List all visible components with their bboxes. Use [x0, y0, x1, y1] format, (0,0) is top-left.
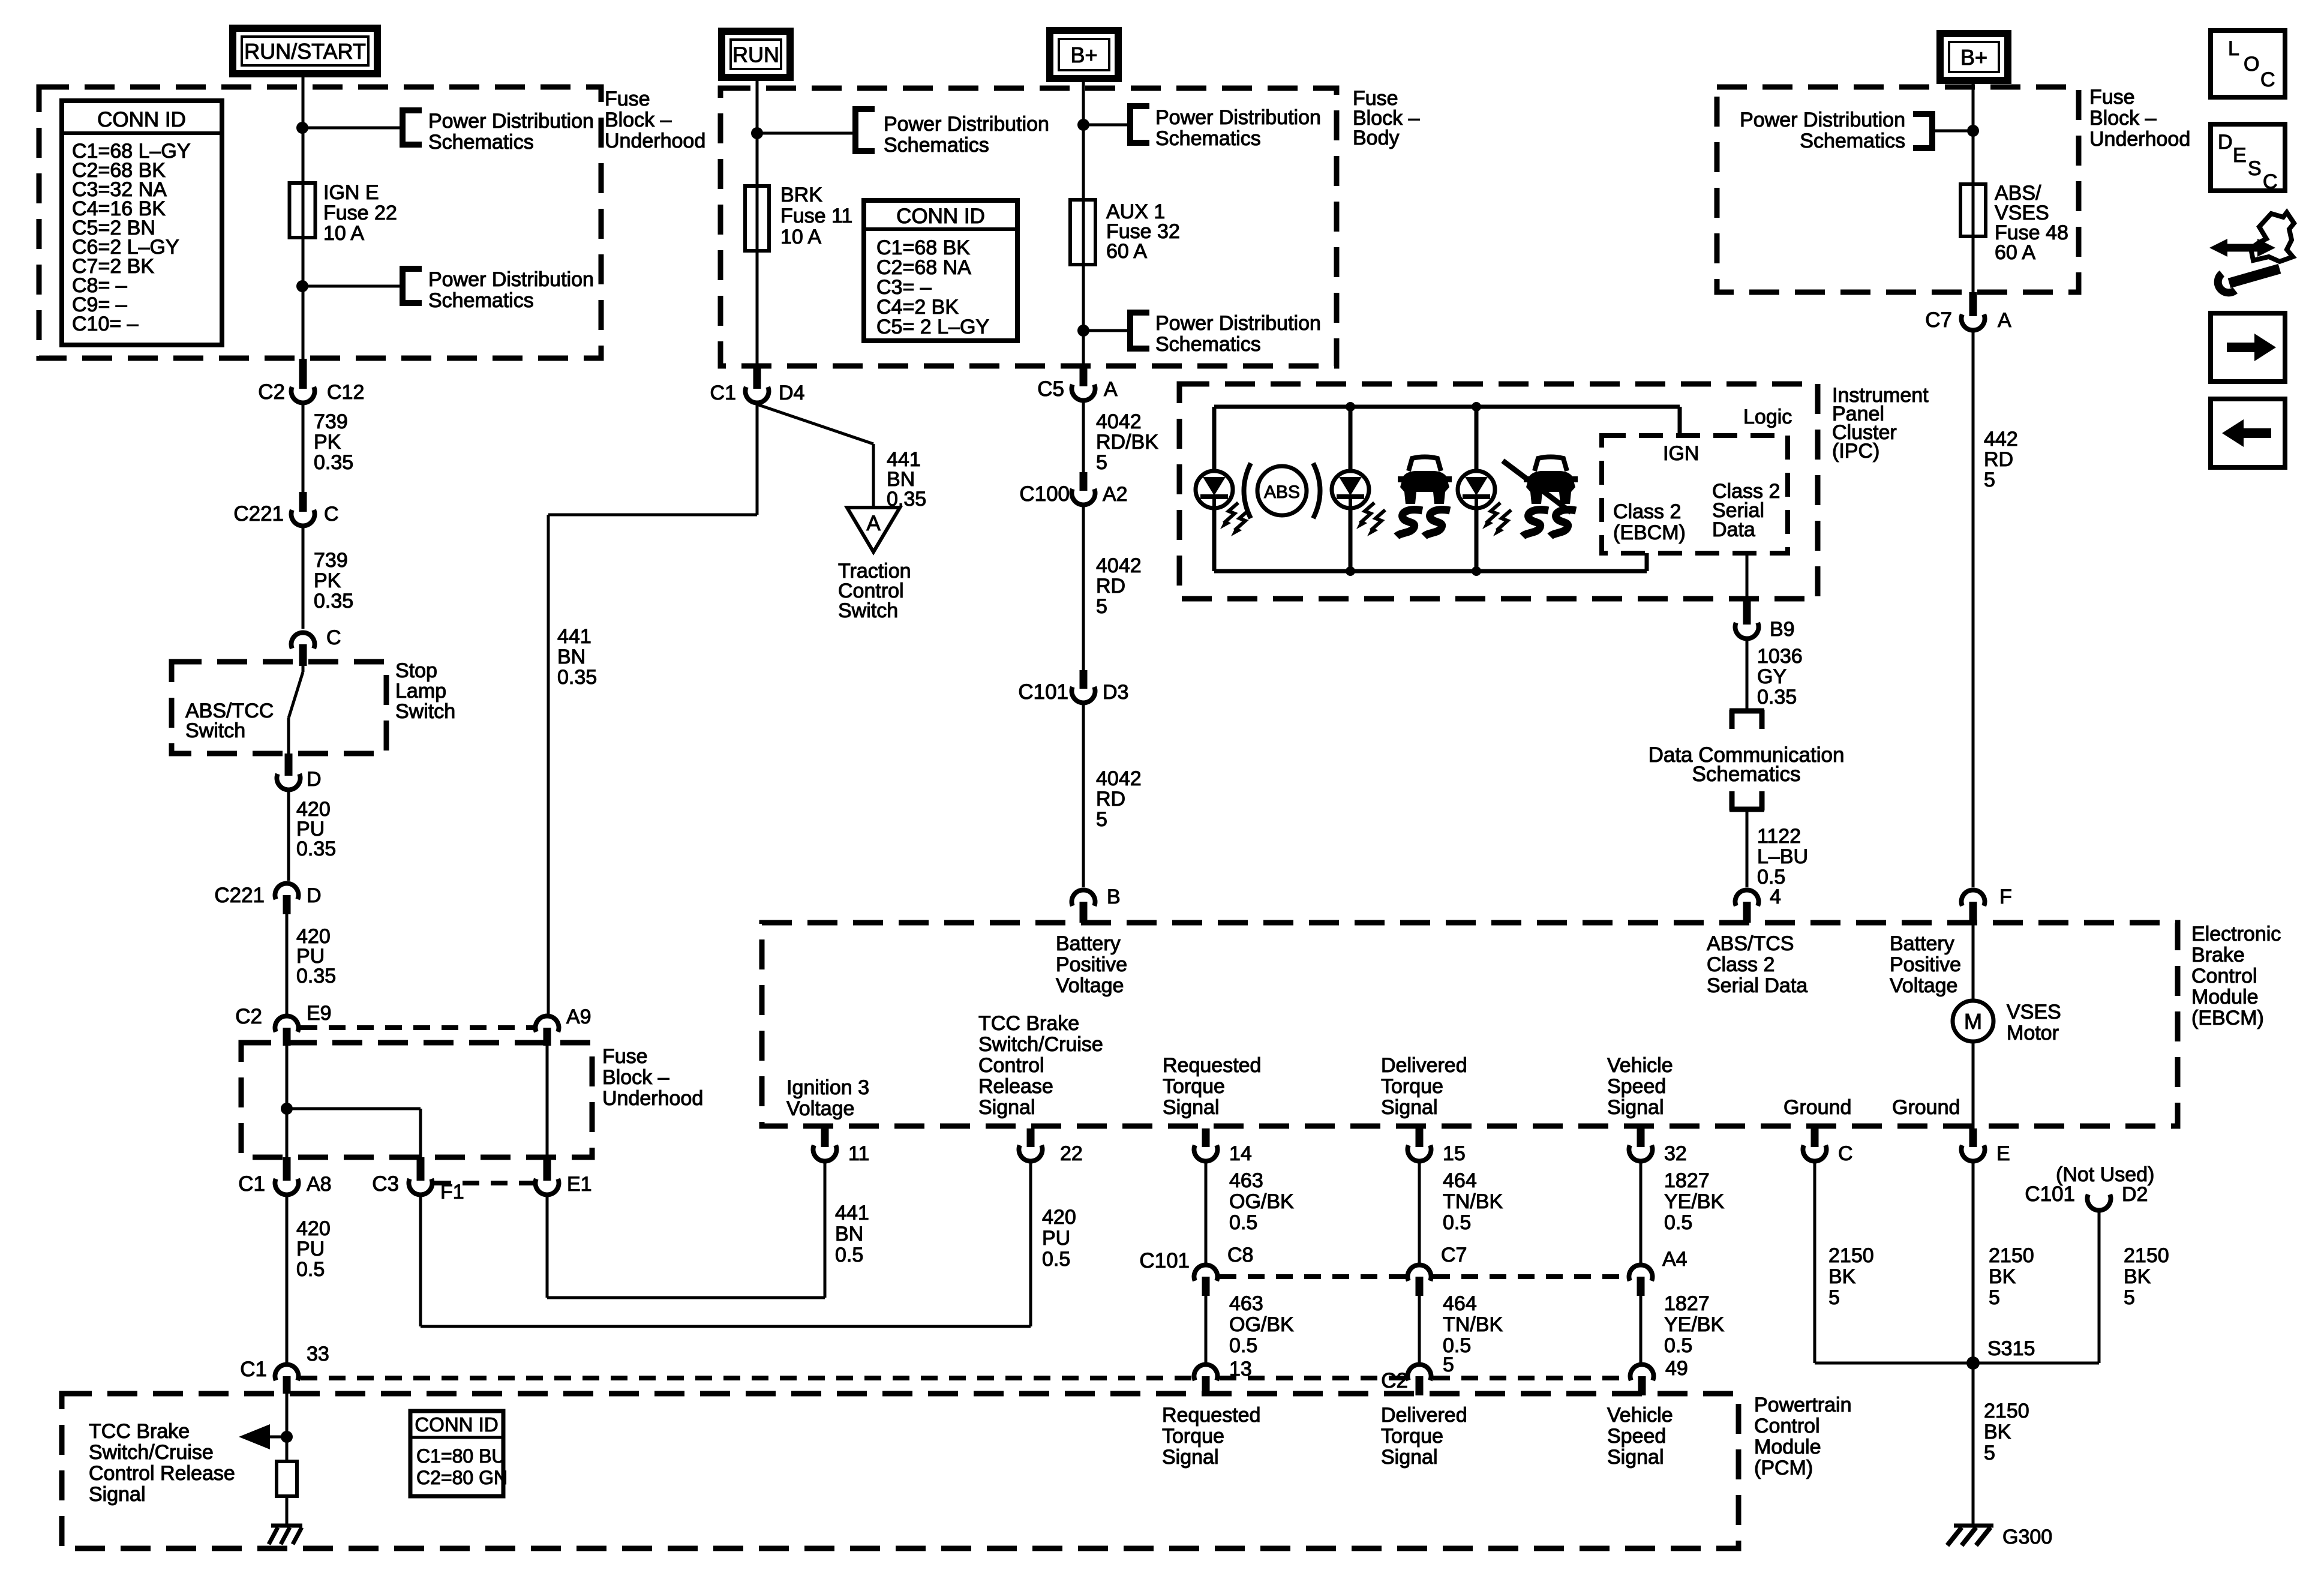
wire 464 TN/BK lower	[1418, 1296, 1421, 1363]
wire to VSES motor	[1972, 923, 1975, 1002]
svg-text:Torque: Torque	[1381, 1425, 1443, 1448]
svg-text:PU: PU	[1042, 1227, 1070, 1250]
wire through fuse block (420 PU)	[286, 1046, 289, 1157]
svg-text:C2=80 GN: C2=80 GN	[416, 1467, 508, 1488]
svg-text:0.5: 0.5	[296, 1258, 325, 1281]
svg-text:4042: 4042	[1096, 767, 1142, 790]
svg-text:739: 739	[314, 549, 348, 572]
svg-text:RUN/START: RUN/START	[244, 39, 366, 64]
wire 463 OG/BK upper	[1205, 1163, 1208, 1263]
svg-text:C100: C100	[1019, 482, 1070, 506]
label wire 420 PU 0.5 (pin22)	[1042, 1206, 1076, 1271]
svg-text:0.35: 0.35	[296, 965, 336, 987]
svg-text:Signal: Signal	[1607, 1446, 1664, 1469]
dashed connector jumper F1-E1	[434, 1181, 533, 1185]
dashed connector jumper C7-A4	[1433, 1274, 1627, 1279]
connector C2/C12	[258, 359, 364, 404]
svg-text:GY: GY	[1757, 665, 1786, 688]
svg-text:Requested: Requested	[1163, 1054, 1261, 1077]
svg-text:(IPC): (IPC)	[1832, 440, 1879, 463]
connector C1/D4	[710, 366, 805, 404]
off-page triangle A traction control switch	[847, 508, 900, 552]
Fuse Block - Underhood label (lower)	[602, 1045, 703, 1110]
node junction B+ to power distribution 2	[1077, 325, 1089, 337]
svg-text:22: 22	[1060, 1142, 1083, 1165]
EBCM pin 11	[813, 1128, 870, 1165]
svg-text:Stop: Stop	[395, 659, 437, 682]
EBCM pin E ground	[1962, 1128, 2010, 1165]
svg-text:PU: PU	[296, 1238, 325, 1260]
svg-text:S315: S315	[1987, 1337, 2035, 1360]
wire S315 to G300	[1972, 1363, 1975, 1526]
ABS warning symbol	[1244, 463, 1320, 518]
svg-text:A9: A9	[566, 1005, 591, 1028]
svg-text:Module: Module	[2191, 986, 2259, 1008]
svg-text:Schematics: Schematics	[428, 131, 534, 154]
label battery positive voltage (B)	[1056, 932, 1127, 997]
svg-text:PK: PK	[314, 569, 341, 592]
svg-text:D4: D4	[779, 382, 804, 404]
label vehicle speed signal	[1607, 1054, 1673, 1119]
svg-text:5: 5	[1096, 595, 1107, 618]
svg-text:Schematics: Schematics	[1155, 127, 1261, 150]
label wire 464 TN/BK 0.5 (1)	[1443, 1169, 1503, 1234]
svg-text:C1: C1	[240, 1358, 267, 1381]
IPC lamp bus left	[1212, 407, 1217, 571]
svg-text:Switch/Cruise: Switch/Cruise	[978, 1033, 1103, 1056]
svg-text:BK: BK	[1828, 1265, 1856, 1288]
svg-text:Signal: Signal	[1381, 1446, 1438, 1469]
svg-text:5: 5	[2124, 1286, 2135, 1309]
svg-text:1827: 1827	[1664, 1169, 1710, 1192]
wire 4042 RD (2)	[1082, 704, 1085, 887]
svg-text:420: 420	[296, 1217, 331, 1240]
dashed connector jumper C8-C7	[1220, 1274, 1406, 1279]
svg-text:Requested: Requested	[1162, 1404, 1260, 1427]
label TCC brake switch signal	[978, 1012, 1103, 1119]
icon arrow right	[2211, 313, 2285, 382]
stop lamp switch box	[172, 662, 386, 754]
svg-text:RD: RD	[1096, 575, 1125, 598]
svg-text:0.5: 0.5	[1443, 1211, 1471, 1234]
svg-text:Control: Control	[1754, 1415, 1820, 1437]
wire 441 BN to pin 11	[547, 1163, 825, 1298]
label wire 739 PK 0.35 (1)	[314, 410, 353, 474]
power rail RUN/START	[233, 28, 377, 74]
svg-text:F: F	[1999, 885, 2012, 908]
label wire 2150 BK 5 (G300)	[1984, 1400, 2029, 1464]
off-page bracket from data comm (bottom)	[1730, 791, 1764, 810]
svg-text:Fuse 11: Fuse 11	[780, 205, 852, 227]
svg-text:4042: 4042	[1096, 410, 1142, 433]
svg-text:Power Distribution: Power Distribution	[1740, 109, 1905, 131]
svg-text:2150: 2150	[1989, 1244, 2034, 1267]
off-page bracket RUN power distribution	[853, 106, 875, 154]
svg-text:E9: E9	[307, 1002, 332, 1025]
wire 420 PU to pin 22	[421, 1163, 1031, 1326]
label power distribution schematics (RUN)	[884, 113, 1049, 157]
svg-text:Fuse: Fuse	[605, 88, 650, 110]
node junction to power distribution 1	[296, 122, 308, 134]
svg-text:RD: RD	[1984, 448, 2013, 471]
svg-text:E: E	[1996, 1142, 2010, 1165]
Fuse Block - Underhood label (left)	[605, 88, 705, 152]
svg-text:RD: RD	[1096, 788, 1125, 810]
svg-text:0.35: 0.35	[557, 666, 597, 689]
connector C7 (bulkhead)	[1408, 1244, 1467, 1296]
svg-text:Battery: Battery	[1056, 932, 1121, 955]
svg-text:0.5: 0.5	[1229, 1334, 1257, 1357]
svg-text:5: 5	[1828, 1286, 1840, 1309]
svg-text:O: O	[2244, 53, 2259, 76]
svg-text:Schematics: Schematics	[428, 289, 534, 312]
lamp 3 flash arrows	[1482, 503, 1511, 536]
off-page bracket power distribution 1	[400, 107, 422, 148]
svg-text:Voltage: Voltage	[1056, 974, 1124, 997]
svg-text:1036: 1036	[1757, 645, 1803, 668]
wire 420 PU segment 1	[287, 791, 290, 881]
Fuse Block - Body label	[1353, 87, 1420, 149]
label wire 420 PU 0.35 (1)	[296, 798, 336, 860]
svg-text:15: 15	[1443, 1142, 1466, 1165]
EBCM pin 32	[1629, 1128, 1687, 1165]
fuse F22 IGN E	[290, 183, 316, 238]
EBCM pin 15	[1408, 1128, 1466, 1165]
connector D below stop lamp switch	[277, 754, 322, 791]
label fuse BRK	[780, 184, 852, 248]
wire 442 RD	[1972, 332, 1975, 887]
svg-text:A2: A2	[1103, 483, 1128, 506]
label power distribution schematics (right)	[1740, 109, 1905, 152]
svg-text:C101: C101	[1139, 1249, 1190, 1272]
svg-text:L–BU: L–BU	[1757, 845, 1808, 868]
svg-text:CONN ID: CONN ID	[896, 205, 985, 228]
fuse F32 AUX 1	[1070, 200, 1095, 265]
svg-text:C12: C12	[327, 381, 364, 404]
svg-text:0.5: 0.5	[1664, 1334, 1692, 1357]
svg-text:A: A	[1998, 309, 2011, 332]
svg-text:TCC Brake: TCC Brake	[89, 1420, 190, 1443]
svg-text:Block –: Block –	[605, 109, 672, 131]
svg-text:Signal: Signal	[89, 1483, 146, 1506]
wire 441 BN routing	[548, 403, 757, 1014]
svg-text:PK: PK	[314, 431, 341, 454]
label wire 739 PK 0.35 (2)	[314, 549, 353, 613]
svg-text:A: A	[866, 512, 881, 535]
CONN ID table (PCM)	[410, 1411, 508, 1496]
svg-text:Power Distribution: Power Distribution	[1155, 106, 1321, 129]
svg-text:Switch/Cruise: Switch/Cruise	[89, 1441, 214, 1464]
svg-text:5: 5	[1096, 451, 1107, 474]
PCM pin 5 connector C2	[1381, 1353, 1454, 1395]
indicator lamp LED 2 (traction active)	[1332, 471, 1369, 508]
svg-text:TN/BK: TN/BK	[1443, 1313, 1503, 1336]
svg-text:Logic: Logic	[1743, 406, 1792, 428]
EBCM pin F	[1962, 885, 2012, 923]
svg-text:14: 14	[1229, 1142, 1252, 1165]
svg-text:D: D	[307, 884, 322, 907]
svg-text:Power Distribution: Power Distribution	[428, 268, 594, 291]
svg-text:441: 441	[557, 625, 591, 648]
off-page bracket B+ pd 1	[1128, 103, 1149, 146]
svg-text:4042: 4042	[1096, 554, 1142, 577]
power rail RUN	[722, 31, 790, 77]
label class 2 serial data	[1712, 480, 1780, 541]
svg-text:C221: C221	[233, 502, 284, 526]
icon arrow left	[2211, 399, 2285, 467]
connector C100/A2	[1019, 472, 1127, 506]
svg-text:0.35: 0.35	[296, 837, 336, 860]
icon wrench double arrow	[2209, 212, 2294, 293]
label power distribution schematics 2	[428, 268, 594, 312]
svg-text:Underhood: Underhood	[605, 130, 705, 152]
label IGN	[1663, 442, 1699, 465]
svg-text:Switch: Switch	[395, 700, 455, 723]
svg-text:Underhood: Underhood	[2089, 128, 2190, 151]
wire 739 PK segment 2	[302, 527, 305, 629]
label PCM	[1754, 1394, 1852, 1479]
EBCM pin B	[1072, 885, 1121, 923]
svg-text:BK: BK	[2124, 1265, 2151, 1288]
svg-text:464: 464	[1443, 1292, 1477, 1315]
IPC lamp bus bottom	[1214, 553, 1647, 571]
label delivered torque signal	[1381, 1054, 1467, 1119]
indicator lamp LED 1 (ABS)	[1196, 471, 1233, 508]
IPC lamp bus top	[1214, 407, 1680, 436]
ground G300	[1947, 1526, 2052, 1548]
CONN ID table (fuse block underhood)	[62, 101, 222, 345]
svg-text:B+: B+	[1960, 45, 1987, 70]
label wire 463 OG/BK 0.5 (1)	[1229, 1169, 1294, 1234]
svg-text:0.5: 0.5	[1229, 1211, 1257, 1234]
Fuse Block - Underhood box (right)	[1717, 87, 2079, 292]
off-page bracket power distribution 2	[400, 266, 422, 306]
label power distribution schematics (B+ 1)	[1155, 106, 1321, 150]
svg-text:D: D	[307, 768, 322, 791]
connector C101/C8	[1139, 1244, 1253, 1296]
icon car skid (traction control)	[1397, 457, 1452, 537]
svg-text:10 A: 10 A	[780, 226, 821, 248]
fuse F11 BRK	[745, 186, 769, 251]
svg-text:1827: 1827	[1664, 1292, 1710, 1315]
connector C1/33	[240, 1343, 329, 1394]
svg-text:Schematics: Schematics	[1155, 333, 1261, 356]
PCM pin 13	[1194, 1358, 1252, 1395]
svg-text:Fuse 22: Fuse 22	[323, 202, 397, 224]
connector C5/A	[1037, 366, 1118, 401]
label ignition 3 voltage	[786, 1076, 869, 1120]
svg-text:B: B	[1107, 885, 1121, 908]
svg-text:Fuse: Fuse	[2089, 86, 2135, 109]
svg-text:Brake: Brake	[2191, 944, 2245, 966]
wire branch RUN power distribution	[757, 132, 852, 135]
svg-text:Release: Release	[978, 1075, 1053, 1098]
wire branch power distribution (right)	[1935, 130, 1973, 133]
svg-text:Control: Control	[2191, 965, 2257, 987]
svg-text:C1: C1	[238, 1172, 265, 1196]
label battery positive voltage (F)	[1890, 932, 1961, 997]
svg-text:464: 464	[1443, 1169, 1477, 1192]
svg-text:Powertrain: Powertrain	[1754, 1394, 1852, 1416]
wire 463 OG/BK lower	[1205, 1296, 1208, 1363]
label wire 441 BN 0.35	[557, 625, 597, 689]
svg-text:Voltage: Voltage	[1890, 974, 1957, 997]
IPC logic box	[1602, 436, 1788, 553]
svg-text:Electronic: Electronic	[2191, 923, 2281, 945]
svg-text:C1=80 BU: C1=80 BU	[416, 1445, 506, 1467]
svg-text:C2: C2	[1381, 1369, 1408, 1392]
label logic	[1743, 406, 1792, 428]
label stop lamp switch	[395, 659, 455, 723]
svg-text:Signal: Signal	[1163, 1096, 1220, 1119]
wire 464 TN/BK upper	[1418, 1163, 1421, 1263]
svg-text:C221: C221	[214, 884, 265, 907]
off-page bracket to data comm (top)	[1730, 710, 1764, 729]
connector C221/D	[214, 883, 321, 914]
svg-text:RD/BK: RD/BK	[1096, 431, 1158, 454]
svg-text:49: 49	[1665, 1357, 1688, 1380]
svg-text:13: 13	[1229, 1358, 1252, 1380]
svg-text:32: 32	[1664, 1142, 1687, 1165]
label wire 1827 YE/BK 0.5 (2)	[1664, 1292, 1724, 1357]
label wire 442 RD 5	[1984, 428, 2018, 491]
svg-text:Ignition 3: Ignition 3	[786, 1076, 869, 1099]
off-page bracket power distribution (right)	[1913, 111, 1935, 151]
label class 2 EBCM	[1613, 500, 1686, 544]
svg-text:B+: B+	[1070, 43, 1097, 67]
svg-text:A8: A8	[307, 1173, 332, 1196]
wire motor to ground pin E	[1972, 1041, 1975, 1128]
label wire 441 BN 0.5	[835, 1202, 869, 1266]
svg-text:YE/BK: YE/BK	[1664, 1190, 1724, 1213]
wire to traction control switch	[757, 404, 873, 508]
label data communication schematics	[1649, 743, 1845, 786]
svg-text:Torque: Torque	[1162, 1425, 1224, 1448]
label vehicle speed signal (PCM)	[1607, 1404, 1673, 1469]
connector C101/D2 not used	[2025, 1182, 2148, 1211]
svg-text:C: C	[326, 626, 341, 649]
svg-text:C8: C8	[1227, 1244, 1253, 1266]
wire branch to F1	[287, 1109, 421, 1157]
svg-text:C: C	[324, 503, 339, 526]
svg-text:ABS: ABS	[1264, 482, 1300, 502]
svg-text:Speed: Speed	[1607, 1075, 1666, 1098]
wire 739 PK segment 1	[302, 404, 305, 492]
svg-text:Class 2: Class 2	[1707, 953, 1774, 976]
svg-text:Power Distribution: Power Distribution	[1155, 312, 1321, 335]
svg-text:C2: C2	[235, 1005, 262, 1028]
svg-text:RUN: RUN	[732, 43, 779, 67]
svg-text:D2: D2	[2122, 1183, 2148, 1206]
svg-text:CONN ID: CONN ID	[97, 108, 186, 131]
connector C2/E9	[235, 1002, 331, 1046]
svg-text:0.35: 0.35	[314, 590, 353, 613]
Instrument Panel Cluster box	[1179, 384, 1818, 599]
CONN ID table (middle)	[864, 200, 1017, 341]
svg-text:BK: BK	[1989, 1265, 2016, 1288]
wire branch B+ pd 2	[1083, 329, 1127, 332]
label fuse IGN E	[323, 181, 397, 245]
label wire 4042 RD 5 (1)	[1096, 554, 1142, 618]
wire B+ feed	[1082, 79, 1085, 366]
wire branch to power distribution 1	[302, 127, 400, 130]
svg-text:442: 442	[1984, 428, 2018, 451]
label TCC brake switch signal (PCM)	[89, 1420, 235, 1506]
svg-text:Control: Control	[978, 1054, 1044, 1077]
lamp 2 flash arrows	[1356, 503, 1385, 536]
svg-text:A4: A4	[1662, 1248, 1688, 1271]
wire ignition feed (RUN/START to fuse 22)	[302, 74, 305, 360]
svg-text:5: 5	[1984, 1442, 1995, 1464]
svg-text:C101: C101	[2025, 1182, 2075, 1206]
label VSES motor	[2007, 1001, 2061, 1044]
PCM pin 49	[1631, 1357, 1688, 1395]
connector C7/A (right)	[1925, 292, 2011, 332]
svg-text:2150: 2150	[1828, 1244, 1874, 1267]
label wire 441 BN 0.35 (switch)	[887, 448, 926, 511]
EBCM pin 4	[1736, 885, 1781, 923]
splice S315	[1966, 1337, 2035, 1370]
label wire 4042 RD 5 (2)	[1096, 767, 1142, 831]
label wire 464 TN/BK 0.5 (2)	[1443, 1292, 1503, 1357]
svg-text:441: 441	[835, 1202, 869, 1224]
svg-text:Body: Body	[1353, 127, 1400, 149]
power rail B+ (body)	[1050, 31, 1118, 79]
svg-text:C: C	[2263, 170, 2278, 193]
svg-text:BRK: BRK	[780, 184, 822, 206]
svg-text:Delivered: Delivered	[1381, 1404, 1467, 1427]
svg-text:4: 4	[1770, 885, 1781, 908]
svg-text:Torque: Torque	[1163, 1075, 1225, 1098]
svg-text:YE/BK: YE/BK	[1664, 1313, 1724, 1336]
svg-text:A: A	[1104, 378, 1118, 401]
wire 1122 L-BU	[1746, 809, 1749, 887]
svg-text:D3: D3	[1103, 681, 1128, 704]
svg-text:BK: BK	[1984, 1421, 2011, 1443]
icon LOC	[2211, 31, 2285, 97]
wire 4042 RD (1)	[1082, 506, 1085, 670]
wire ground E to S315	[1972, 1163, 1975, 1363]
dashed connector jumper E9-A9	[301, 1025, 533, 1030]
label wire 420 PU 0.35 (2)	[296, 925, 336, 987]
node junction to power distribution (right)	[1967, 125, 1979, 137]
svg-text:5: 5	[1096, 808, 1107, 831]
fuse F48 ABS/VSES	[1960, 184, 1986, 236]
svg-text:60 A: 60 A	[1106, 240, 1147, 263]
svg-text:Battery: Battery	[1890, 932, 1954, 955]
svg-text:463: 463	[1229, 1292, 1263, 1315]
resistor pull in PCM	[277, 1461, 297, 1496]
svg-text:33: 33	[307, 1343, 329, 1365]
connector B9	[1735, 599, 1794, 641]
EBCM module box	[762, 923, 2178, 1126]
label ABS/TCC switch	[185, 700, 274, 742]
svg-text:Vehicle: Vehicle	[1607, 1404, 1673, 1427]
svg-text:C5= 2 L–GY: C5= 2 L–GY	[876, 316, 989, 338]
label ground C	[1783, 1096, 1851, 1119]
label wire 2150 BK 5 (C)	[1828, 1244, 1874, 1309]
svg-text:C5: C5	[1037, 377, 1064, 401]
wire 420 PU segment 2	[286, 914, 289, 1014]
svg-text:C7: C7	[1925, 308, 1952, 332]
svg-text:C: C	[1838, 1142, 1853, 1165]
wire RUN feed	[756, 77, 759, 366]
svg-text:C2: C2	[258, 380, 285, 404]
stop lamp switch contact lever	[289, 666, 303, 754]
svg-text:Ground: Ground	[1783, 1096, 1851, 1119]
label fuse ABS/VSES	[1995, 182, 2068, 264]
label wire 420 PU 0.5	[296, 1217, 331, 1281]
